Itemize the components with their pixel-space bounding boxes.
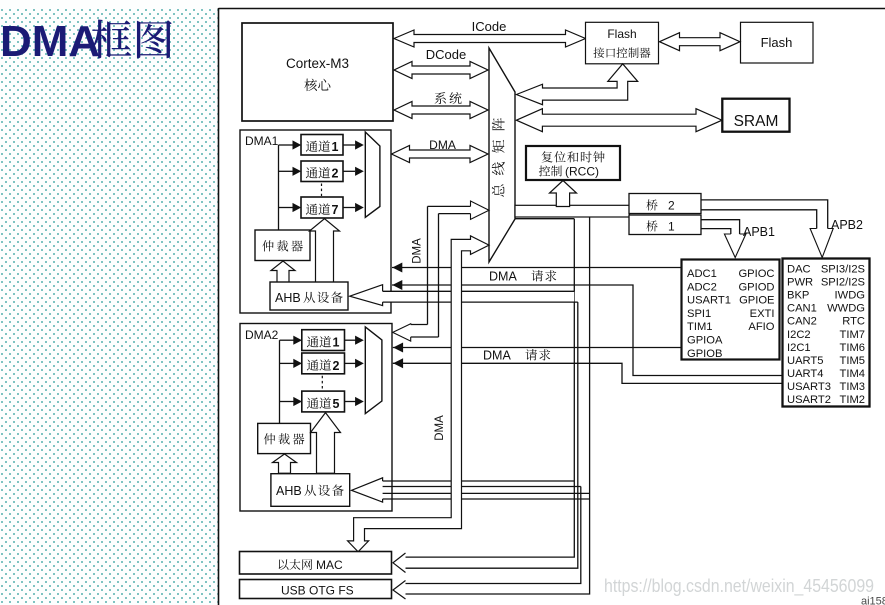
svg-text:RTC: RTC [842,316,865,328]
svg-text:GPIOC: GPIOC [738,268,774,280]
svg-text:MAC: MAC [316,558,343,572]
svg-text:Cortex-M3: Cortex-M3 [286,56,349,71]
svg-text:5: 5 [333,397,340,411]
APB2 down arrow [810,229,833,258]
svg-text:DMA2: DMA2 [245,328,279,342]
wire AHB vertical A2 to Ethernet MAC [404,302,578,568]
svg-text:CAN1: CAN1 [787,303,817,315]
wire DMA2 request 2 [393,363,783,383]
svg-text:IWDG: IWDG [835,290,865,302]
svg-text:1: 1 [332,140,339,154]
DMA1 channel 2 box 通道2 [301,161,343,182]
svg-text:APB1: APB1 [743,225,775,239]
svg-text:USART3: USART3 [787,381,831,393]
DMA1 channel 7 box 通道7 [301,197,343,218]
DMA1 controller box [240,130,391,313]
wire bridge1 to APB1 [701,220,740,234]
APB1 peripherals box [682,260,780,360]
svg-text:BKP: BKP [787,290,809,302]
Flash box [741,22,814,63]
svg-text:TIM1: TIM1 [687,321,712,333]
diagram frame [219,9,885,605]
RCC box 复位和时钟控制 [526,146,620,180]
DMA2 output trapezoid mux [365,327,382,414]
svg-text:ADC1: ADC1 [687,268,717,280]
svg-text:DMA: DMA [434,415,446,441]
svg-text:2: 2 [668,199,675,213]
DMA1 channels up arrow [310,219,340,283]
Ethernet MAC input chevron [393,553,406,573]
APB1 down arrow [724,234,746,258]
Cortex-M3 core box [242,23,393,121]
dashed ellipsis between channels [321,376,323,389]
svg-text:7: 7 [332,203,339,217]
svg-text:Flash: Flash [761,35,793,50]
svg-text:SPI1: SPI1 [687,308,711,320]
DMA1 AHB slave input bar [383,291,575,302]
svg-text:SRAM: SRAM [734,113,779,130]
dashed ellipsis between channels [321,184,323,197]
svg-text:https://blog.csdn.net/weixin_4: https://blog.csdn.net/weixin_45456099 [604,576,874,597]
svg-text:GPIOA: GPIOA [687,335,723,347]
DMA2 arbiter up arrow [273,454,297,473]
USB OTG FS box [240,580,392,599]
svg-text:SPI3/I2S: SPI3/I2S [821,264,865,276]
svg-text:TIM4: TIM4 [840,368,865,380]
svg-text:DMA: DMA [0,17,100,66]
svg-text:USART1: USART1 [687,295,731,307]
svg-text:DMA1: DMA1 [245,134,279,148]
svg-text:USB OTG FS: USB OTG FS [281,584,354,598]
wire DMA2 request 1 [393,347,682,349]
DMA1 arbiter up arrow [271,261,295,283]
svg-text:EXTI: EXTI [750,308,775,320]
svg-text:ADC2: ADC2 [687,281,717,293]
APB2 peripherals box [783,259,870,407]
wire bus matrix to AHB verticals [515,218,575,220]
bridge 1 box [629,215,701,235]
label 总线矩阵 vertical [492,118,505,130]
svg-text:WWDG: WWDG [827,303,865,315]
svg-text:APB2: APB2 [831,218,863,232]
SRAM box [722,99,789,132]
DMA2 channels up arrow [311,413,341,474]
wire AHB vertical B to USB OTG [404,217,590,594]
svg-text:TIM7: TIM7 [840,329,865,341]
svg-text:CAN2: CAN2 [787,316,817,328]
svg-text:1: 1 [333,336,340,350]
Ethernet MAC box 以太网 [240,552,392,575]
flash iface to flash double arrow [660,33,741,51]
wire DMA1 request 2 [392,285,783,376]
bus matrix to bridge bar [515,205,630,217]
svg-text:(RCC): (RCC) [565,165,599,179]
DMA1 channel 1 box 通道1 [301,135,343,156]
AHB path bus matrix to Ethernet MAC [348,236,489,552]
DMA2 AHB slave box [271,474,350,507]
bridge 2 box [629,194,701,214]
svg-text:UART4: UART4 [787,368,823,380]
DMA2 channel 1 box 通道1 [302,330,345,351]
DMA1 AHB slave box [270,282,348,310]
svg-text:TIM6: TIM6 [840,342,865,354]
svg-text:TIM2: TIM2 [840,394,865,406]
DMA1 channel feed wire [278,145,280,230]
wire AHB vertical A1 to Ethernet MAC [404,219,574,557]
svg-text:GPIOE: GPIOE [739,295,774,307]
svg-text:SPI2/I2S: SPI2/I2S [821,277,865,289]
RCC up arrow [550,181,577,207]
svg-text:DMA: DMA [489,270,517,284]
svg-text:TIM5: TIM5 [840,355,865,367]
DMA2 controller box [240,324,392,512]
bus matrix 总线矩阵 [489,48,515,262]
svg-text:Flash: Flash [607,27,636,41]
svg-text:AFIO: AFIO [748,321,774,333]
DMA1 arbiter box 仲裁器 [255,230,310,261]
DMA2 channel 5 box 通道5 [302,391,345,412]
wire DMA1 request 1 [392,267,682,269]
svg-text:ICode: ICode [472,19,507,34]
svg-text:AHB: AHB [276,484,302,498]
USB OTG input chevron [393,581,406,600]
DMA2 master path to bus matrix [427,206,429,324]
svg-text:ai1582: ai1582 [861,596,885,605]
svg-text:1: 1 [668,220,675,234]
svg-text:DCode: DCode [426,47,466,62]
svg-text:GPIOD: GPIOD [738,281,774,293]
DMA bus arrow [392,146,489,163]
DMA2 AHB slave input bars [377,480,574,482]
DMA2 channel feed wire [279,340,281,423]
wire bridge2 to APB2 [701,200,828,229]
svg-text:DMA: DMA [429,138,456,152]
svg-text:DMA: DMA [412,238,424,264]
DMA2 arbiter box 仲裁器 [258,423,311,453]
SRAM double arrow [516,109,722,132]
svg-text:2: 2 [333,359,340,373]
svg-text:DAC: DAC [787,264,811,276]
svg-text:UART5: UART5 [787,355,823,367]
Flash interface controller box [586,22,659,64]
dotted background strip [0,0,218,605]
flash iface to bus matrix L-arrow [516,64,637,105]
svg-text:PWR: PWR [787,277,813,289]
system bus arrow 系统 [394,102,488,119]
DMA1 output trapezoid mux [365,132,380,217]
ICode bus arrow [394,30,586,47]
svg-text:2: 2 [332,167,339,181]
svg-text:USART2: USART2 [787,394,831,406]
svg-text:TIM3: TIM3 [840,381,865,393]
wire AHB vertical A3 to USB OTG [404,487,581,584]
svg-text:I2C2: I2C2 [787,329,811,341]
DMA2 channel 2 box 通道2 [302,353,345,374]
svg-text:GPIOB: GPIOB [687,348,722,360]
svg-text:DMA: DMA [483,349,511,363]
svg-text:I2C1: I2C1 [787,342,811,354]
svg-text:AHB: AHB [275,291,301,305]
DCode bus arrow [394,62,488,79]
